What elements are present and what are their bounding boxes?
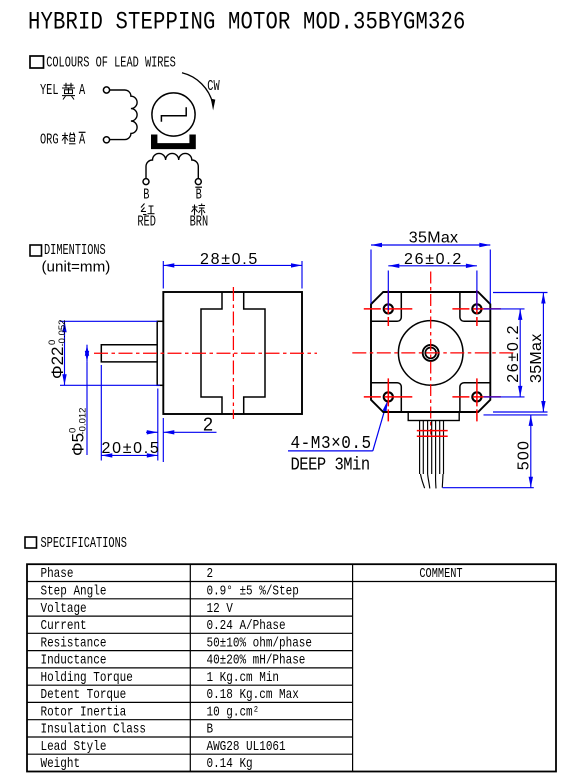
svg-text:SPECIFICATIONS: SPECIFICATIONS (41, 535, 127, 551)
mounting hole bottom-right (472, 392, 481, 401)
dimension phi22 (60, 321, 160, 385)
dimension 26+-0.2 right (484, 309, 525, 397)
svg-text:20±0.5: 20±0.5 (102, 440, 161, 457)
mounting hole top-right (472, 304, 481, 313)
hanzi zong (brown) (192, 204, 206, 216)
section checkbox SPECIFICATIONS (25, 537, 37, 548)
svg-text:0.9° ±5 %/Step: 0.9° ±5 %/Step (207, 583, 299, 598)
svg-text:DEEP 3Min: DEEP 3Min (291, 455, 370, 476)
dimension 35Max right (493, 293, 548, 413)
leader arrowhead (383, 400, 388, 411)
svg-text:YEL: YEL (40, 82, 59, 98)
svg-text:DIMENTIONS: DIMENTIONS (44, 242, 106, 258)
svg-text:500: 500 (516, 440, 533, 470)
label DEEP 3Min (291, 455, 370, 476)
svg-text:2: 2 (207, 566, 214, 581)
terminal B red (143, 179, 149, 185)
crosshair hole bottom-right (452, 378, 501, 424)
svg-text:Resistance: Resistance (41, 635, 107, 650)
spec table texts (41, 566, 463, 772)
spec table column dividers (190, 564, 352, 771)
coil B (phase B winding) (146, 153, 198, 178)
label YEL A (40, 82, 86, 98)
dimension 2 (146, 418, 217, 462)
svg-text:Holding Torque: Holding Torque (41, 670, 133, 685)
side view shaft (101, 345, 157, 362)
svg-text:B: B (143, 187, 150, 203)
lead wire tails (421, 474, 444, 488)
spec table header row line (full width) (27, 581, 556, 583)
svg-text:Rotor Inertia: Rotor Inertia (41, 704, 127, 719)
stator bracket (thick U) (151, 135, 196, 150)
dimension 500 (443, 415, 548, 488)
svg-text:HYBRID STEPPING MOTOR MOD.35BY: HYBRID STEPPING MOTOR MOD.35BYGM326 (28, 8, 466, 36)
section label SPECIFICATIONS (41, 535, 127, 551)
title (28, 8, 466, 36)
terminal A yellow (103, 87, 109, 93)
svg-text:1 Kg.cm Min: 1 Kg.cm Min (207, 670, 280, 685)
label CW (207, 78, 220, 94)
terminal B brown (195, 179, 201, 185)
section label DIMENTIONS (44, 242, 106, 258)
corner pad bottom-left (371, 383, 401, 412)
crosshair hole top-left (364, 290, 413, 328)
svg-text:Insulation Class: Insulation Class (41, 722, 147, 737)
crosshair hole bottom-left (364, 378, 413, 424)
svg-text:Lead Style: Lead Style (41, 739, 107, 754)
label RED (137, 214, 156, 230)
section checkbox DIMENTIONS (30, 245, 42, 256)
svg-text:26±0.2: 26±0.2 (404, 251, 463, 268)
svg-text:ORG: ORG (40, 132, 59, 148)
shaft circle inner (425, 348, 436, 359)
spec table row lines (27, 599, 353, 754)
CW arrow arc (182, 73, 215, 111)
svg-text:(unit=mm): (unit=mm) (42, 259, 111, 276)
svg-text:50±10% ohm/phase: 50±10% ohm/phase (207, 635, 313, 650)
svg-text:Weight: Weight (41, 756, 81, 771)
label B (143, 187, 150, 203)
coil A (phase A winding) (110, 90, 137, 140)
hanzi huang (yellow) (62, 83, 75, 100)
label unit=mm (42, 259, 111, 276)
shaft circle outer (423, 345, 439, 361)
svg-text:COLOURS OF LEAD WIRES: COLOURS OF LEAD WIRES (46, 54, 176, 71)
svg-text:10 g.cm²: 10 g.cm² (207, 704, 260, 719)
svg-text:28±0.5: 28±0.5 (200, 251, 259, 268)
front view body outline (371, 292, 490, 412)
svg-text:12 V: 12 V (207, 601, 234, 616)
svg-text:RED: RED (137, 214, 156, 230)
svg-text:Step Angle: Step Angle (41, 583, 107, 598)
hanzi hong (red) (141, 204, 155, 215)
dimension 28+-0.5 (163, 261, 302, 289)
section label COLOURS OF LEAD WIRES (46, 54, 176, 71)
svg-text:Current: Current (41, 618, 87, 633)
svg-text:26±0.2: 26±0.2 (505, 324, 522, 383)
svg-text:Φ22: Φ22 (48, 347, 67, 379)
crosshair hole top-right (452, 290, 501, 328)
section checkbox COLOURS (30, 56, 44, 68)
dimension 35Max top (371, 245, 490, 304)
side view inner contour right (244, 292, 265, 414)
svg-text:COMMENT: COMMENT (419, 566, 462, 582)
label ORG Abar (40, 132, 86, 148)
corner pad bottom-right (460, 383, 490, 412)
svg-text:AWG28 UL1061: AWG28 UL1061 (207, 739, 286, 754)
boss circle (398, 321, 463, 386)
svg-text:B: B (196, 187, 203, 203)
svg-text:B: B (207, 722, 214, 737)
svg-text:0.24 A/Phase: 0.24 A/Phase (207, 618, 286, 633)
side view flange (157, 321, 163, 385)
svg-text:0.14 Kg: 0.14 Kg (207, 756, 253, 771)
label 4-M3x0.5 (291, 434, 372, 454)
svg-text:A: A (79, 132, 86, 148)
dimension 20+-0.5 (101, 365, 158, 461)
label Bbar (195, 187, 202, 203)
side view horizontal centerline (94, 352, 317, 354)
svg-text:2: 2 (203, 415, 213, 435)
rotor circle (152, 93, 195, 136)
side view vertical centerline (232, 287, 234, 419)
dimension phi5 (86, 345, 88, 455)
hanzi cheng (orange) (62, 133, 76, 145)
corner pad top-right (460, 292, 490, 321)
svg-text:35Max: 35Max (528, 333, 545, 383)
wire exit neck (408, 412, 459, 421)
wire bundle red marks (417, 431, 448, 437)
svg-text:Phase: Phase (41, 566, 74, 581)
terminal A orange (103, 137, 109, 143)
svg-text:-0.012: -0.012 (78, 408, 89, 435)
dimension 26+-0.2 top (388, 266, 477, 310)
mounting hole bottom-left (384, 392, 393, 401)
lead wires bundle (420, 421, 444, 475)
svg-text:Detent Torque: Detent Torque (41, 687, 127, 702)
front view horizontal centerline (352, 352, 515, 354)
svg-text:35Max: 35Max (409, 229, 459, 246)
mounting hole top-left (384, 304, 393, 313)
side view motor body (163, 292, 302, 414)
front view vertical centerline (430, 272, 432, 435)
svg-text:BRN: BRN (190, 214, 209, 230)
spec table outer border (27, 564, 556, 771)
leader line 4-M3 (288, 405, 386, 451)
label BRN (190, 214, 209, 230)
svg-text:Φ5: Φ5 (69, 433, 88, 456)
svg-text:-0.052: -0.052 (57, 320, 68, 347)
svg-text:0.18 Kg.cm Max: 0.18 Kg.cm Max (207, 687, 299, 702)
svg-text:40±20% mH/Phase: 40±20% mH/Phase (207, 653, 306, 668)
svg-text:A: A (79, 82, 86, 98)
svg-text:CW: CW (207, 78, 220, 94)
rotor mark (161, 107, 186, 122)
corner pad top-left (371, 292, 401, 321)
svg-text:Voltage: Voltage (41, 601, 87, 616)
side view inner contour left (201, 292, 222, 414)
svg-text:Inductance: Inductance (41, 653, 107, 668)
